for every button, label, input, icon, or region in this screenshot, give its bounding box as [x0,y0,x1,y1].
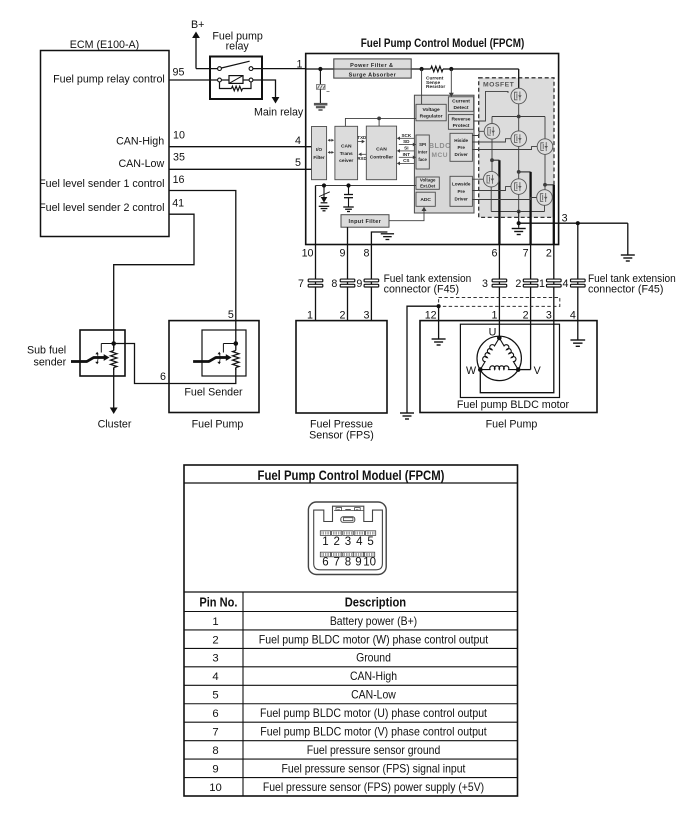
svg-text:16: 16 [173,174,185,186]
svg-text:SCK: SCK [401,133,411,138]
svg-text:Surge Absorber: Surge Absorber [349,72,397,78]
svg-text:B+: B+ [191,19,204,31]
svg-text:3: 3 [345,536,351,548]
svg-text:1: 1 [307,309,313,321]
svg-text:Cluster: Cluster [98,418,132,430]
svg-text:2: 2 [340,309,346,321]
svg-text:CAN-Low: CAN-Low [351,688,396,702]
svg-text:7: 7 [212,727,218,739]
svg-text:CAN-Low: CAN-Low [118,158,164,170]
svg-text:face: face [418,157,427,162]
svg-text:W: W [466,365,477,377]
svg-text:Fuel Sender: Fuel Sender [184,387,243,399]
svg-text:4: 4 [563,278,569,290]
svg-text:Description: Description [345,595,407,610]
svg-text:Input Filter: Input Filter [348,219,381,225]
svg-text:Fuel pump BLDC motor: Fuel pump BLDC motor [457,399,570,411]
svg-text:4: 4 [356,536,363,548]
svg-text:Fuel Pump: Fuel Pump [486,418,538,430]
svg-text:1: 1 [322,536,328,548]
svg-text:SPI: SPI [419,142,426,147]
svg-text:8: 8 [331,278,337,290]
svg-text:ECM (E100-A): ECM (E100-A) [70,39,140,51]
svg-text:9: 9 [212,763,218,775]
svg-text:6: 6 [160,371,166,383]
svg-text:3: 3 [363,309,369,321]
svg-text:4: 4 [570,309,576,321]
svg-text:Controller: Controller [370,155,393,161]
svg-text:SD: SD [403,139,410,144]
svg-text:MCU: MCU [432,152,449,159]
svg-text:CAN-High: CAN-High [116,135,164,147]
svg-text:9: 9 [355,557,361,569]
svg-text:RXD: RXD [357,156,366,161]
svg-text:Driver: Driver [455,196,468,201]
svg-text:1: 1 [539,278,545,290]
svg-text:connector (F45): connector (F45) [588,283,663,295]
svg-text:connector (F45): connector (F45) [384,283,459,295]
svg-text:Fuel pump BLDC motor (W) phase: Fuel pump BLDC motor (W) phase control o… [259,632,489,646]
svg-text:Fuel pump BLDC motor (U) phase: Fuel pump BLDC motor (U) phase control o… [260,706,488,720]
svg-text:Ground: Ground [356,651,391,665]
svg-text:6: 6 [212,708,218,720]
svg-text:CAN: CAN [376,147,387,153]
svg-text:4: 4 [295,135,301,147]
svg-text:Filter: Filter [313,155,324,160]
svg-text:Fuel pressure sensor (FPS) pow: Fuel pressure sensor (FPS) power supply … [263,780,484,794]
svg-text:U: U [489,326,497,338]
svg-text:Fuel level sender 2 control: Fuel level sender 2 control [39,202,164,214]
svg-text:Power Filter &: Power Filter & [350,63,393,69]
svg-text:Voltage: Voltage [420,178,436,183]
svg-text:sender: sender [34,356,67,368]
svg-text:CAN: CAN [341,144,352,150]
svg-text:ceiver: ceiver [339,158,353,164]
svg-text:95: 95 [173,67,185,79]
svg-text:Fuel Pump Control Moduel (FPCM: Fuel Pump Control Moduel (FPCM) [258,468,445,483]
svg-text:Pin No.: Pin No. [199,595,237,610]
svg-text:ADC: ADC [420,197,431,203]
svg-text:Sub fuel: Sub fuel [27,345,66,357]
svg-text:Fuel pressure sensor ground: Fuel pressure sensor ground [307,743,441,757]
svg-text:BLDC: BLDC [429,141,451,150]
svg-text:Pre: Pre [457,145,465,150]
svg-text:3: 3 [546,309,552,321]
svg-text:10: 10 [209,782,222,794]
svg-text:7: 7 [298,278,304,290]
svg-text:41: 41 [172,198,184,210]
svg-text:1: 1 [297,58,303,70]
svg-text:1: 1 [491,309,497,321]
svg-text:Voltage: Voltage [422,107,440,113]
svg-text:Fuel Pump: Fuel Pump [192,418,244,430]
svg-text:Fuel pump relay control: Fuel pump relay control [53,73,165,85]
svg-text:Fuel pressure sensor (FPS) sig: Fuel pressure sensor (FPS) signal input [282,761,466,775]
svg-text:12: 12 [425,309,437,321]
svg-text:Trans: Trans [340,151,353,157]
svg-text:INT: INT [403,152,411,157]
svg-text:Lowside: Lowside [452,182,471,187]
svg-text:5: 5 [228,309,234,321]
svg-text:3: 3 [212,653,218,665]
svg-text:Fuel pump BLDC motor (V) phase: Fuel pump BLDC motor (V) phase control o… [260,725,487,739]
svg-text:Fuel Pump Control Moduel (FPCM: Fuel Pump Control Moduel (FPCM) [361,36,525,50]
svg-text:10: 10 [173,130,185,142]
svg-text:5: 5 [295,157,301,169]
svg-text:2: 2 [212,634,218,646]
svg-text:TXD: TXD [357,135,366,140]
svg-text:Regulator: Regulator [420,114,443,120]
svg-text:Driver: Driver [455,152,468,157]
svg-text:1: 1 [212,616,218,628]
svg-text:5: 5 [212,690,218,702]
svg-text:4: 4 [212,671,218,683]
svg-text:2: 2 [333,536,339,548]
svg-text:6: 6 [322,557,328,569]
svg-text:Detect: Detect [454,105,469,111]
svg-text:10: 10 [363,557,376,569]
svg-text:8: 8 [363,247,369,259]
svg-text:MOSFET: MOSFET [483,82,515,89]
svg-text:3: 3 [482,278,488,290]
svg-text:Current: Current [452,99,470,105]
svg-text:2: 2 [546,247,552,259]
svg-text:5: 5 [367,536,373,548]
svg-text:V: V [534,365,542,377]
svg-text:Sensor (FPS): Sensor (FPS) [309,429,374,441]
svg-text:Main relay: Main relay [254,106,304,118]
svg-text:10: 10 [302,247,314,259]
svg-text:6: 6 [491,247,497,259]
svg-text:Resistor: Resistor [426,84,445,90]
svg-text:7: 7 [523,247,529,259]
svg-text:Hiside: Hiside [454,138,468,143]
svg-text:Ext.Det: Ext.Det [420,184,436,189]
svg-text:2: 2 [515,278,521,290]
svg-text:Reverse: Reverse [451,116,470,122]
svg-text:I/O: I/O [316,147,323,152]
svg-text:relay: relay [226,41,250,53]
svg-text:Fuel level sender 1 control: Fuel level sender 1 control [39,178,164,190]
svg-text:CAN-High: CAN-High [350,669,397,683]
svg-text:8: 8 [212,745,218,757]
svg-text:9: 9 [356,278,362,290]
svg-text:Pre: Pre [457,189,465,194]
svg-text:2: 2 [523,309,529,321]
svg-text:Protect: Protect [453,123,470,129]
svg-text:CS: CS [403,158,409,163]
svg-text:SI: SI [404,146,408,151]
svg-text:8: 8 [345,557,351,569]
svg-text:35: 35 [173,152,185,164]
svg-text:inter: inter [418,150,428,155]
svg-text:Battery power (B+): Battery power (B+) [330,614,417,628]
svg-text:9: 9 [340,247,346,259]
svg-text:7: 7 [333,557,339,569]
